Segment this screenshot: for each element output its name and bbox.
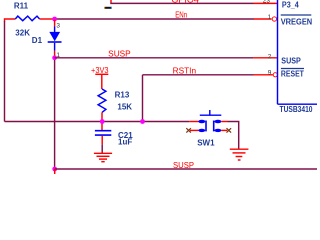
svg-text:SUSP: SUSP <box>108 50 131 59</box>
svg-text:SW1: SW1 <box>197 139 215 148</box>
wire: bottom-mid rail <box>5 121 190 123</box>
pin lead: SW1 pin top-left <box>189 121 198 123</box>
capacitor C21 <box>95 131 111 135</box>
svg-text:RSTIn: RSTIn <box>173 67 197 76</box>
inversion bubble pin 9 <box>273 73 277 77</box>
svg-text:3: 3 <box>56 23 60 30</box>
node: junction SUSP / D1 <box>52 55 57 60</box>
pin name RESET (active low) <box>281 69 304 79</box>
svg-text:R13: R13 <box>115 91 130 100</box>
label 32K <box>15 28 30 37</box>
label 15K <box>117 102 132 111</box>
pin number 2 <box>268 53 272 60</box>
label SW1 <box>197 139 215 148</box>
node: junction R13 / C21 / rail <box>100 119 105 124</box>
wire: bottom SUSP rail <box>55 168 317 170</box>
resistor R11 <box>15 16 39 21</box>
label TUSB3410 <box>280 105 313 114</box>
pin lead: stub below bottom junction <box>54 169 56 174</box>
svg-text:R11: R11 <box>14 1 29 10</box>
svg-text:9: 9 <box>268 69 272 76</box>
wire: left corner red at R11 pin 1 <box>5 19 16 22</box>
svg-text:VREGEN: VREGEN <box>281 18 313 27</box>
ground (C21) <box>94 153 112 161</box>
pin name SUSP <box>281 56 301 65</box>
label R13 <box>115 91 130 100</box>
pin name P3_4 <box>282 1 299 10</box>
pin number 23 <box>263 0 271 4</box>
net label ENn <box>175 11 187 20</box>
wire: GPIO4 horizontal rail <box>110 2 253 4</box>
stray glyph fragment (cropped text) <box>104 7 112 9</box>
svg-text:2: 2 <box>268 53 272 60</box>
pin number 9 <box>268 69 272 76</box>
pin number 3 (D1 anode) <box>56 23 60 30</box>
svg-text:GPIO4: GPIO4 <box>171 0 199 5</box>
label C21 <box>118 131 133 140</box>
wire: SUSP rail <box>55 57 254 59</box>
inversion bubble pin 1 <box>272 17 276 21</box>
svg-text:TUSB3410: TUSB3410 <box>280 105 313 114</box>
pin lead: U pin 1 <box>254 18 272 20</box>
pin lead: SW1 bottom-left with no-connect X <box>186 128 198 132</box>
resistor R13 <box>98 89 106 112</box>
label R11 <box>14 1 29 10</box>
svg-text:1: 1 <box>268 14 272 21</box>
svg-text:RESET: RESET <box>281 70 304 79</box>
power symbol +3V3 <box>91 66 109 89</box>
svg-text:ENn: ENn <box>175 11 187 20</box>
svg-text:23: 23 <box>263 0 271 4</box>
ground (SW1) <box>230 149 249 160</box>
pin lead: SW1 bottom-right with no-connect X <box>221 128 231 132</box>
wire: GPIO4 rail stub from top edge <box>110 0 112 3</box>
pin lead: R11 pin 2 <box>40 18 55 20</box>
net label SUSP (middle) <box>108 50 131 59</box>
wire: SUSP vertical (D1 to bottom rail) <box>54 60 56 169</box>
wire: RSTIn rail <box>143 74 254 76</box>
wire: left vertical <box>4 21 6 122</box>
wire: RSTIn vertical <box>142 75 144 122</box>
wire: SW1 to ground corner <box>228 122 239 150</box>
pin name VREGEN (active low) <box>281 15 313 27</box>
switch SW1 <box>198 110 221 132</box>
node: junction RSTIn / rail <box>140 119 145 124</box>
svg-text:1uF: 1uF <box>118 138 132 147</box>
label D1 <box>32 36 43 45</box>
pin lead: U pin 2 <box>253 57 277 59</box>
pin number 1 (D1 cathode) <box>56 52 60 59</box>
pin lead: D1 cathode <box>54 51 56 58</box>
wire: C21 to ground <box>101 144 103 153</box>
pin lead: R13 bottom / C21 top <box>101 112 103 130</box>
net label RSTIn <box>173 67 197 76</box>
svg-text:P3_4: P3_4 <box>282 1 299 10</box>
svg-text:32K: 32K <box>15 28 30 37</box>
label 1uF <box>118 138 132 147</box>
pin lead: SW1 pin top-right <box>221 121 227 123</box>
net label GPIO4 <box>171 0 199 5</box>
diode D1 <box>48 20 62 51</box>
pin lead: C21 bottom <box>101 136 103 145</box>
svg-text:15K: 15K <box>117 102 132 111</box>
pin number 1 <box>268 14 272 21</box>
svg-text:SUSP: SUSP <box>173 161 194 170</box>
svg-text:D1: D1 <box>32 36 43 45</box>
svg-text:SUSP: SUSP <box>281 56 301 65</box>
pin lead: U pin 23 <box>254 2 278 4</box>
wire: ENn rail (junction to chip) <box>55 18 254 20</box>
net label SUSP (bottom) <box>173 161 194 170</box>
node: junction bottom SUSP rail <box>52 167 57 172</box>
IC U1 TUSB3410 body edge <box>278 0 318 104</box>
pin lead: U pin 9 <box>254 74 273 76</box>
node: junction ENn / R11 / D1 <box>52 17 57 22</box>
